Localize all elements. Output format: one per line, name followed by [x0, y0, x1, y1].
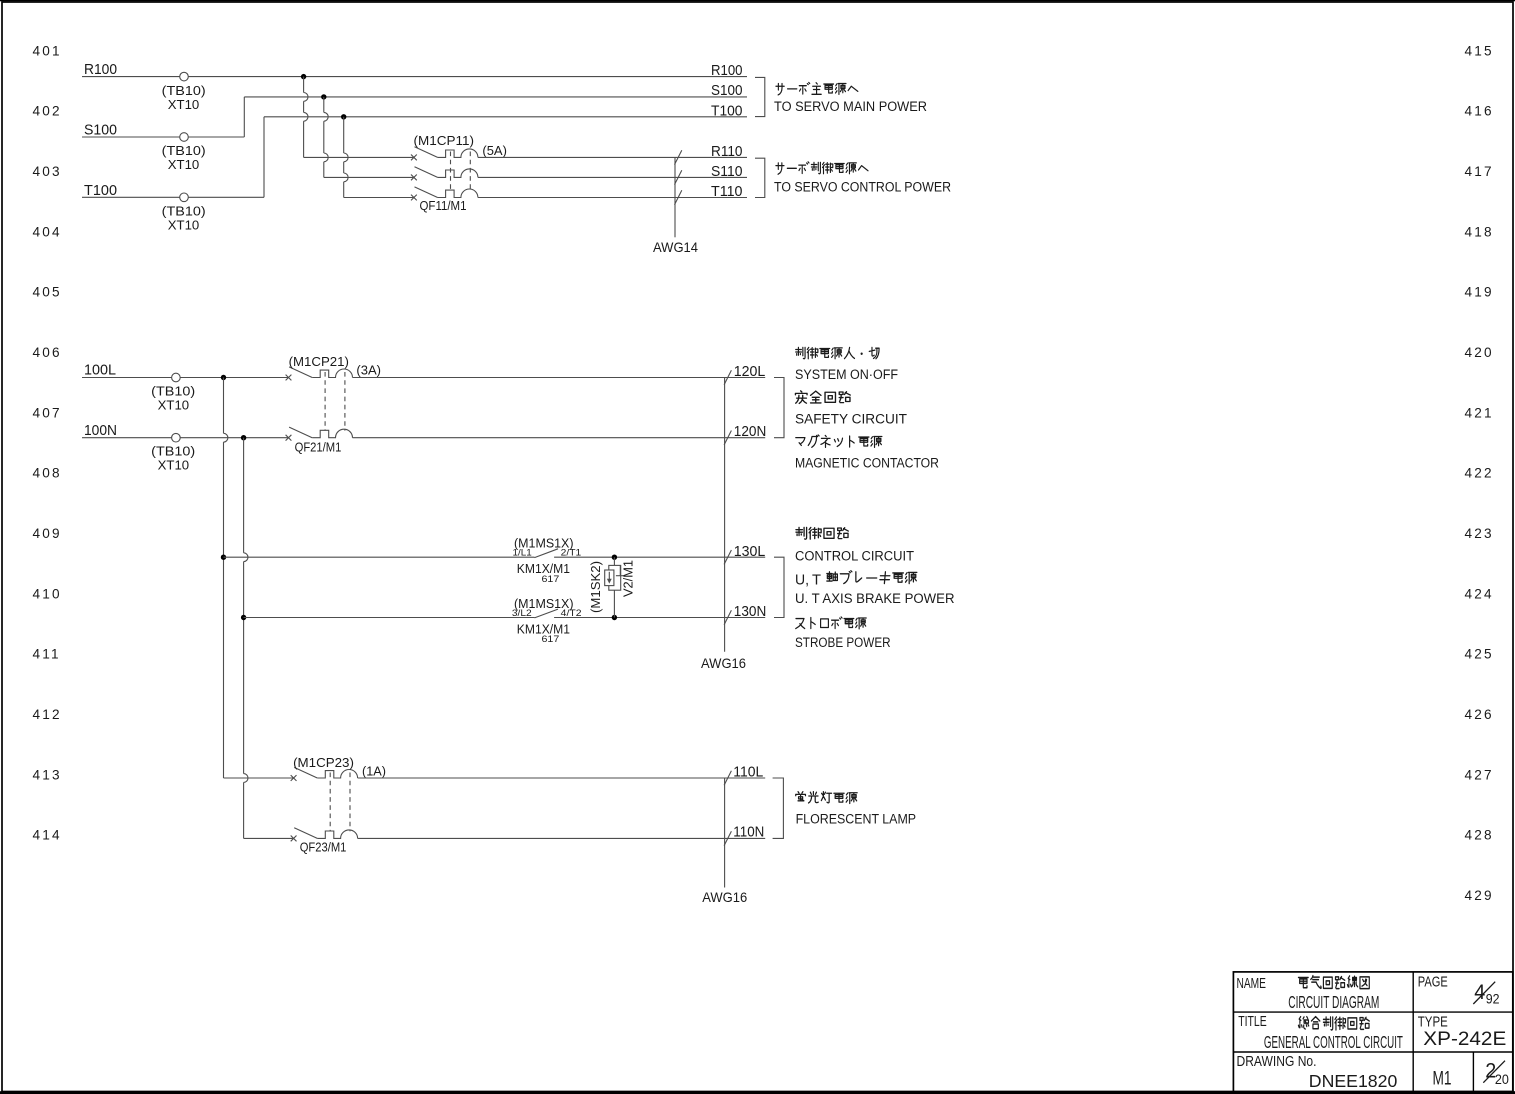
node S110 label	[711, 163, 743, 180]
wire T100 bus	[264, 116, 747, 118]
svg-text:V2/M1: V2/M1	[622, 560, 636, 597]
wire drop R100 to R110	[304, 77, 414, 158]
svg-text:427: 427	[1465, 767, 1494, 782]
svg-text:92: 92	[1486, 991, 1500, 1007]
svg-text:QF21/M1: QF21/M1	[295, 440, 342, 455]
node 110L label	[733, 763, 763, 780]
svg-text:DRAWING No.: DRAWING No.	[1237, 1054, 1317, 1070]
svg-text:421: 421	[1465, 405, 1494, 420]
title block frame	[1233, 972, 1512, 1092]
cable AWG16 gather line (110 group)	[724, 771, 731, 888]
contact KM1X 1/L1-2/T1	[535, 549, 559, 558]
title block M1 cell	[1433, 1068, 1452, 1090]
junction 130N tap	[241, 615, 246, 620]
svg-text:XT10: XT10	[158, 457, 190, 472]
svg-text:(M1SK2): (M1SK2)	[589, 561, 603, 613]
svg-text:419: 419	[1465, 285, 1494, 300]
svg-text:401: 401	[33, 43, 62, 58]
label (M1CP23)	[293, 755, 354, 770]
svg-text:404: 404	[33, 224, 62, 239]
svg-text:S100: S100	[711, 82, 743, 99]
svg-text:TO SERVO MAIN POWER: TO SERVO MAIN POWER	[774, 99, 927, 114]
wire S100 bus	[244, 96, 747, 98]
breaker QF11 linkage dashes	[451, 152, 471, 191]
svg-text:418: 418	[1465, 224, 1494, 239]
svg-text:617: 617	[542, 574, 560, 584]
value label (3A)	[356, 363, 381, 378]
svg-text:U,: U,	[795, 572, 809, 589]
node T110 label	[711, 183, 743, 200]
wire 110L in	[224, 777, 294, 779]
node 100N label	[84, 422, 117, 439]
svg-text:417: 417	[1465, 164, 1494, 179]
pin label 2/T1	[561, 548, 582, 558]
wire S110 out	[478, 176, 747, 178]
bracket 110 group	[773, 778, 784, 838]
breaker QF23 (M1CP23) pole 2	[291, 828, 358, 842]
svg-text:100L: 100L	[84, 362, 116, 379]
label U.T AXIS BRAKE POWER	[795, 591, 955, 606]
svg-text:AWG14: AWG14	[653, 240, 698, 255]
label U,T axis brake power (jp)	[795, 572, 821, 589]
svg-text:XT10: XT10	[158, 397, 190, 412]
label FLORESCENT LAMP	[796, 812, 917, 827]
node R110 label	[711, 143, 743, 160]
label (M1CP21)	[289, 354, 349, 369]
svg-text:XP-242E: XP-242E	[1423, 1028, 1506, 1050]
terminal XT10 on 100N	[151, 433, 195, 472]
label QF23/M1	[300, 839, 347, 854]
svg-text:130L: 130L	[734, 543, 766, 560]
svg-text:120N: 120N	[734, 423, 767, 440]
svg-text:412: 412	[33, 707, 62, 722]
right margin row numbers 415-429	[1465, 43, 1494, 903]
wire 100N in	[82, 437, 288, 439]
label AWG16 (rows 413-414)	[702, 890, 747, 905]
svg-text:(TB10): (TB10)	[162, 83, 206, 98]
svg-text:422: 422	[1465, 466, 1494, 481]
junction on R100	[301, 74, 306, 79]
svg-text:409: 409	[33, 526, 62, 541]
node 130N label	[734, 603, 767, 620]
wire 120N	[353, 437, 766, 439]
svg-text:(TB10): (TB10)	[151, 383, 195, 398]
node S100 right label	[711, 82, 743, 99]
svg-text:AWG16: AWG16	[702, 890, 747, 905]
label TO SERVO MAIN POWER	[774, 99, 927, 114]
svg-text:(M1CP21): (M1CP21)	[289, 354, 349, 369]
breaker QF11 (M1CP11) pole 2	[411, 167, 478, 181]
svg-text:TITLE: TITLE	[1238, 1014, 1267, 1030]
node T100 label	[84, 182, 117, 199]
svg-text:110L: 110L	[733, 763, 763, 780]
label strobe power (jp)	[796, 617, 867, 629]
svg-text:407: 407	[33, 405, 62, 420]
value label (5A)	[482, 143, 507, 158]
svg-text:M1: M1	[1433, 1068, 1452, 1090]
junction on 100N	[241, 435, 246, 440]
label SYSTEM ON-OFF	[795, 367, 898, 382]
svg-text:QF11/M1: QF11/M1	[420, 198, 467, 213]
svg-text:STROBE POWER: STROBE POWER	[795, 635, 891, 650]
svg-text:617: 617	[542, 634, 560, 644]
cable AWG16 gather line (130 group)	[724, 378, 731, 652]
label (M1MS1X) lower contact	[514, 596, 574, 611]
svg-text:T110: T110	[711, 183, 743, 200]
svg-text:MAGNETIC CONTACTOR: MAGNETIC CONTACTOR	[795, 455, 939, 470]
label servo control power (jp)	[776, 162, 868, 174]
title block NAME cell	[1237, 976, 1267, 992]
svg-text:(M1CP23): (M1CP23)	[293, 755, 354, 770]
label KM1X/M1 upper	[517, 561, 570, 576]
pin label 1/L1	[513, 548, 532, 558]
svg-text:T100: T100	[84, 182, 117, 199]
node T100 right label	[711, 102, 743, 119]
terminal XT10 on 100L	[151, 373, 195, 412]
svg-text:(5A): (5A)	[482, 143, 507, 158]
svg-text:R110: R110	[711, 143, 743, 160]
svg-text:AWG16: AWG16	[701, 656, 746, 671]
svg-text:FLORESCENT LAMP: FLORESCENT LAMP	[796, 812, 917, 827]
breaker QF11 (M1CP11) pole 1	[411, 147, 478, 161]
wire 100L in	[82, 377, 288, 379]
wire 110N in	[244, 837, 294, 839]
svg-text:XT10: XT10	[168, 97, 200, 112]
label (M1CP11)	[414, 133, 475, 148]
svg-text:PAGE: PAGE	[1418, 975, 1448, 991]
title block sheet fraction 2/20	[1483, 1060, 1509, 1088]
label (M1MS1X) upper contact	[514, 536, 574, 551]
label MAGNETIC CONTACTOR	[795, 455, 939, 470]
svg-text:U. T AXIS BRAKE POWER: U. T AXIS BRAKE POWER	[795, 591, 955, 606]
svg-text:(TB10): (TB10)	[162, 204, 206, 219]
title block TYPE cell	[1418, 1015, 1448, 1031]
breaker QF11 (M1CP11) pole 3	[411, 187, 478, 201]
label safety circuit (jp)	[795, 391, 850, 404]
svg-text:DNEE1820: DNEE1820	[1309, 1071, 1398, 1091]
svg-text:420: 420	[1465, 345, 1494, 360]
wire R100	[82, 76, 747, 78]
node R100 right label	[711, 62, 743, 79]
wire 130L right	[554, 556, 765, 558]
svg-text:424: 424	[1465, 586, 1494, 601]
title block PAGE cell	[1418, 975, 1448, 991]
wire T100 terminal segment	[82, 117, 264, 198]
wire 110L out	[358, 777, 766, 779]
svg-text:408: 408	[33, 466, 62, 481]
pin label 617 upper	[542, 574, 560, 584]
bracket servo control power	[755, 158, 765, 197]
node S100 label	[84, 122, 117, 139]
wire T110 out	[478, 197, 747, 199]
svg-text:100N: 100N	[84, 422, 117, 439]
breaker QF21 linkage dashes	[325, 372, 345, 431]
svg-text:120L: 120L	[734, 363, 766, 380]
label AWG16 (rows 409-411)	[701, 656, 746, 671]
svg-text:429: 429	[1465, 888, 1494, 903]
svg-text:CIRCUIT DIAGRAM: CIRCUIT DIAGRAM	[1288, 992, 1379, 1012]
svg-text:SYSTEM ON·OFF: SYSTEM ON·OFF	[795, 367, 898, 382]
label V2/M1 rotated	[622, 560, 636, 597]
left margin row numbers 401-414	[33, 43, 62, 842]
label SAFETY CIRCUIT	[795, 411, 907, 426]
svg-text:S110: S110	[711, 163, 743, 180]
svg-text:410: 410	[33, 586, 62, 601]
label AWG14	[653, 240, 698, 255]
wire R110 out	[478, 156, 747, 158]
label magnetic contactor (jp)	[796, 435, 882, 447]
label servo main power (jp)	[776, 82, 858, 94]
label TO SERVO CONTROL POWER	[774, 180, 951, 195]
svg-text:(TB10): (TB10)	[151, 443, 195, 458]
title block DRAWING No cell	[1237, 1054, 1317, 1070]
wire drop S100 to S110	[324, 97, 414, 177]
svg-text:405: 405	[33, 285, 62, 300]
junction on T100	[341, 114, 346, 119]
terminal XT10 on S100	[162, 133, 206, 173]
breaker QF21 (M1CP21) pole 2	[286, 427, 353, 441]
junction on S100	[321, 94, 326, 99]
label control circuit (jp)	[796, 527, 848, 539]
contact KM1X 3/L2-4/T2	[535, 609, 559, 618]
svg-text:S100: S100	[84, 122, 117, 139]
svg-text:406: 406	[33, 345, 62, 360]
wire 110N out	[358, 837, 766, 839]
breaker QF23 linkage dashes	[330, 773, 350, 832]
svg-text:(TB10): (TB10)	[162, 143, 206, 158]
cable AWG14 gather line	[675, 150, 682, 237]
svg-text:423: 423	[1465, 526, 1494, 541]
node 130L label	[734, 543, 766, 560]
terminal XT10 on T100	[162, 193, 206, 233]
svg-text:(M1MS1X): (M1MS1X)	[514, 536, 574, 551]
breaker QF21 (M1CP21) pole 1	[286, 367, 353, 381]
svg-text:GENERAL CONTROL CIRCUIT: GENERAL CONTROL CIRCUIT	[1264, 1032, 1403, 1052]
label STROBE POWER	[795, 635, 891, 650]
svg-text:R100: R100	[84, 61, 117, 78]
svg-text:403: 403	[33, 164, 62, 179]
breaker QF23 (M1CP23) pole 1	[291, 767, 358, 781]
node 110N label	[733, 824, 764, 841]
svg-text:QF23/M1: QF23/M1	[300, 839, 347, 854]
svg-text:20: 20	[1495, 1071, 1509, 1087]
label QF21/M1	[295, 440, 342, 455]
svg-text:413: 413	[33, 767, 62, 782]
svg-text:425: 425	[1465, 647, 1494, 662]
label (M1SK2) rotated	[589, 561, 603, 613]
junction on 100L	[221, 375, 226, 380]
svg-text:130N: 130N	[734, 603, 767, 620]
svg-text:(M1CP11): (M1CP11)	[414, 133, 475, 148]
title block TITLE cell	[1238, 1014, 1267, 1030]
wire 130N left	[244, 617, 535, 619]
svg-text:402: 402	[33, 104, 62, 119]
bracket 130 group	[774, 557, 784, 617]
svg-text:SAFETY CIRCUIT: SAFETY CIRCUIT	[795, 411, 907, 426]
wire drop 100N down (to 130N,110N)	[244, 438, 248, 839]
svg-text:(1A): (1A)	[362, 763, 386, 778]
svg-text:T: T	[812, 572, 821, 589]
terminal XT10 on R100	[162, 72, 206, 112]
node 120N label	[724, 423, 766, 445]
svg-text:XT10: XT10	[168, 218, 200, 233]
node 120L label	[724, 363, 765, 385]
svg-text:R100: R100	[711, 62, 743, 79]
svg-text:414: 414	[33, 828, 62, 843]
surge killer V2 (M1SK2)	[605, 555, 625, 621]
label QF11/M1	[420, 198, 467, 213]
bracket servo main power	[755, 77, 765, 116]
label system on-off (jp)	[796, 347, 879, 358]
svg-text:XT10: XT10	[168, 157, 200, 172]
svg-text:411: 411	[33, 647, 61, 662]
bracket 120 group	[774, 378, 784, 438]
svg-text:(3A): (3A)	[356, 363, 381, 378]
label KM1X/M1 lower	[517, 621, 570, 636]
label CONTROL CIRCUIT	[795, 548, 914, 563]
svg-text:415: 415	[1465, 43, 1494, 58]
label fluorescent lamp power (jp)	[796, 792, 857, 804]
wire S100 terminal segment	[82, 97, 244, 137]
junction 130L tap	[221, 555, 226, 560]
wire 120L	[353, 377, 766, 379]
svg-text:T100: T100	[711, 102, 743, 119]
node R100 label	[84, 61, 117, 78]
pin label 4/T2	[561, 608, 582, 618]
wire drop T100 to T110	[344, 117, 414, 198]
svg-text:110N: 110N	[733, 824, 764, 841]
svg-text:426: 426	[1465, 707, 1494, 722]
svg-text:416: 416	[1465, 104, 1494, 119]
pin label 617 lower	[542, 634, 560, 644]
wire 130L left	[224, 556, 535, 558]
svg-text:CONTROL CIRCUIT: CONTROL CIRCUIT	[795, 548, 914, 563]
svg-text:(M1MS1X): (M1MS1X)	[514, 596, 574, 611]
svg-text:TO SERVO CONTROL POWER: TO SERVO CONTROL POWER	[774, 180, 951, 195]
wire drop 100L down (to 130L,110L)	[224, 378, 228, 779]
value label (1A)	[362, 763, 386, 778]
wire 130N right	[554, 617, 765, 619]
node 100L label	[84, 362, 116, 379]
pin label 3/L2	[512, 608, 532, 618]
svg-text:428: 428	[1465, 828, 1494, 843]
svg-text:NAME: NAME	[1237, 976, 1267, 992]
